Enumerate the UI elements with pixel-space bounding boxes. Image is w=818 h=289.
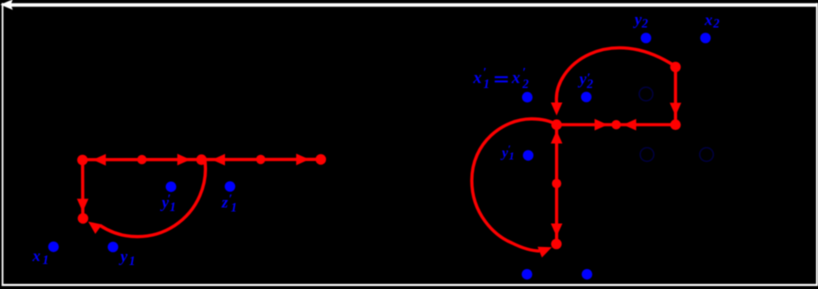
svg-text:z: z [221, 195, 229, 212]
svg-text:y: y [118, 248, 128, 265]
svg-text:2: 2 [522, 77, 529, 91]
svg-text:1: 1 [170, 200, 176, 214]
svg-text:x: x [704, 12, 713, 29]
svg-text:2: 2 [586, 77, 593, 91]
svg-text:1: 1 [509, 150, 515, 162]
svg-text:2: 2 [641, 16, 648, 30]
svg-text:1: 1 [231, 200, 237, 214]
svg-text:1: 1 [43, 253, 49, 267]
svg-text:1: 1 [483, 77, 489, 91]
svg-text:x: x [472, 68, 482, 87]
svg-text:x: x [511, 68, 521, 87]
svg-text:x: x [32, 248, 41, 265]
svg-text:2: 2 [712, 17, 719, 31]
svg-text:1: 1 [129, 254, 135, 268]
